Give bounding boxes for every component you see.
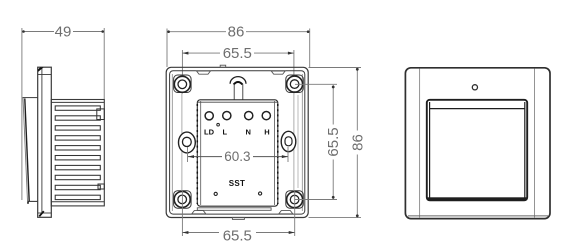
dimension 60.3 extension left [187,147,189,162]
dimension 65.5 right line [332,85,334,125]
left rib line [181,93,183,191]
body fin 10 [55,195,100,199]
dimension 49 line [22,31,54,33]
body corner detail top-right [97,109,105,120]
button front face line [23,98,28,201]
screw hole top-left [174,76,190,92]
screw boss bottom-right [286,191,304,209]
top clip left [197,71,211,74]
faceplate bevel right [534,69,536,218]
button side profile bottom edge [28,200,38,202]
terminal block top inner line [197,101,277,103]
terminal screw L [223,112,231,120]
terminal block inner left line [200,101,202,205]
screw boss top-left [174,75,192,93]
dimension 60.3 extension right [287,147,289,162]
button front face dark line [25,99,29,202]
dimension 86 top line [167,31,226,33]
dimension 86 right line [356,68,358,131]
svg-text:SST: SST [229,179,245,188]
right rib line 2 [297,95,299,188]
terminal screw H [262,112,270,120]
indicator dot [472,85,477,90]
outer box [166,67,308,217]
body fin 8 [55,175,100,179]
screw hole top-right [287,76,303,92]
dimension 65.5 right extension bottom [295,199,337,201]
dimension 86 right extension top [309,67,362,69]
dimension 65.5 bottom extension left [181,191,183,236]
svg-text:49: 49 [55,24,72,41]
terminal block [197,100,277,206]
cable clamp legs [233,84,235,100]
body fin 7 [55,165,100,169]
svg-text:65.5: 65.5 [223,45,252,62]
dimension 65.5 bottom extension right [294,191,296,236]
body fin 1 [55,106,100,110]
dimension 65.5 top extension right [293,50,295,94]
terminal block right edge ticks [277,104,279,204]
body fin 4 [55,136,100,140]
button inner right [524,102,526,198]
button bottom shadow [427,197,527,200]
body fin 5 [55,146,100,150]
frame bar bottom-left chamfer [39,211,44,216]
svg-text:86: 86 [349,134,366,151]
svg-text:60.3: 60.3 [224,149,250,164]
terminal block bottom flange [197,208,271,211]
inner wall line right [301,74,303,211]
right rib line [293,93,295,191]
side slot right [281,131,296,151]
dimension 49 extension line right [103,28,105,100]
body top inner line [51,101,104,103]
dimension 65.5 top extension left [181,50,183,94]
svg-text:86: 86 [228,24,245,41]
dimension 60.3 line [188,156,222,158]
button top bevel line [430,108,525,110]
screw hole bottom-right [287,192,303,208]
svg-text:65.5: 65.5 [325,127,342,156]
bottom clip right [279,211,293,214]
inner wall line left [171,74,173,211]
top clip right [271,71,285,74]
bottom clip left [192,211,206,214]
frame bar inner left line [41,68,43,213]
body corner detail bottom-right [98,184,104,189]
body bottom inner line [51,201,104,203]
svg-text:65.5: 65.5 [223,228,252,242]
terminal block inner right line [274,101,276,205]
dimension 65.5 bottom line [182,232,219,234]
body fin 2 [55,116,100,120]
dimension 86 right extension bottom [309,217,362,219]
frame bar (cover plate side profile) [38,67,52,217]
body fin 6 [55,156,100,160]
faceplate bevel left [419,69,421,218]
button bottom foot [27,201,29,203]
terminal block left edge ticks [196,104,198,204]
terminal screw N [245,112,253,120]
cable clamp dome [230,77,246,84]
dimension 86 top extension right [309,29,311,68]
dimension 49 extension line left [21,28,23,200]
button outline [427,100,527,201]
svg-text:LD: LD [204,127,215,136]
svg-text:H: H [264,127,269,136]
dimension 86 top extension left [166,29,168,68]
frame bar top-left chamfer [38,67,44,72]
side slot left [179,132,196,153]
pilot hole bottom-right [259,192,262,195]
dimension 65.5 top line [182,52,220,54]
body (mechanism housing) outline [51,100,104,206]
frame bar bottom line [38,212,52,214]
faceplate bevel bottom [408,215,548,217]
svg-text:N: N [245,127,250,136]
svg-text:L: L [223,127,228,136]
dimension 60.3 text [223,150,252,162]
pilot hole bottom-left [214,192,217,195]
faceplate outline [405,68,550,219]
screw boss bottom-left [174,191,192,209]
button inner left [429,102,431,198]
frame bar top line [38,74,52,76]
small pilot hole [217,123,220,126]
bottom center bump [232,217,244,219]
screw boss top-right [286,75,304,93]
button side profile top edge [23,97,38,99]
screw hole bottom-left [174,191,190,207]
top center bump [220,65,226,67]
body fin 3 [55,126,100,130]
dimension 65.5 right extension top [295,83,337,85]
terminal screw LD [205,112,213,120]
inner box [170,71,305,214]
body fin 9 [55,185,100,189]
